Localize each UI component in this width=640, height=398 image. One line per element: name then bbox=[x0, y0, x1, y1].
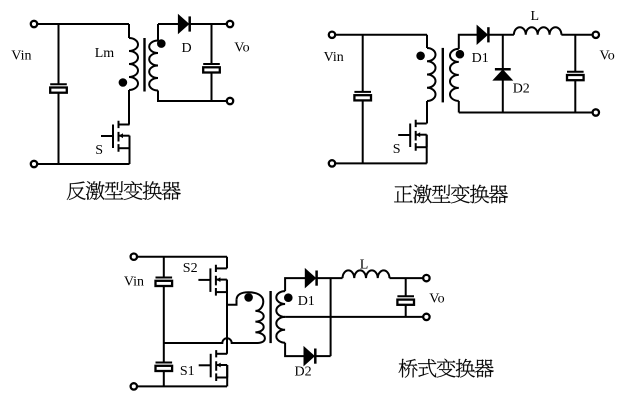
diode D1 (forward) bbox=[478, 27, 489, 43]
wire bottom rail (forward input) bbox=[335, 162, 427, 164]
wire secondary bottom lead to Vo- bbox=[158, 91, 227, 102]
capacitor output (forward) bbox=[567, 72, 584, 81]
svg-text:S2: S2 bbox=[183, 261, 198, 276]
diode D2 freewheeling (forward) bbox=[495, 69, 511, 79]
wire input cap branch top bbox=[58, 24, 60, 84]
node Vin+ terminal (flyback) bbox=[31, 21, 37, 27]
wire input cap branch bottom (forward) bbox=[362, 101, 364, 164]
node Vin- terminal (flyback) bbox=[31, 161, 37, 167]
node Vin- terminal (forward) bbox=[329, 160, 335, 166]
wire top rail Vin+ to transformer primary bbox=[37, 23, 129, 25]
svg-text:Vo: Vo bbox=[429, 291, 444, 306]
wire top rail Vin+ to primary bbox=[335, 34, 427, 36]
transistor S1 (bridge lower MOSFET) bbox=[199, 350, 228, 381]
label caption 桥式变换器 bbox=[399, 359, 494, 378]
wire input cap branch top (forward) bbox=[362, 35, 364, 92]
transistor S (flyback MOSFET) bbox=[101, 121, 130, 152]
diode D1 (bridge) bbox=[306, 270, 317, 286]
wire secondary center tap to Vo- bbox=[285, 316, 423, 318]
svg-text:Lm: Lm bbox=[95, 46, 115, 61]
wire secondary top lead to diode D bbox=[158, 24, 179, 41]
wire secondary top lead to D1 (bridge) bbox=[285, 278, 306, 291]
wire primary top lead bbox=[128, 24, 130, 38]
transformer T3 core bbox=[269, 291, 271, 343]
node secondary polarity dot (forward) bbox=[457, 51, 464, 58]
svg-text:Vin: Vin bbox=[324, 50, 344, 65]
wire bottom rail bbox=[37, 163, 129, 165]
capacitor input upper (bridge) bbox=[156, 278, 173, 287]
capacitor input lower (bridge) bbox=[156, 363, 173, 372]
wire input branch top (bridge) bbox=[163, 257, 165, 278]
svg-text:L: L bbox=[531, 9, 540, 24]
node secondary polarity dot bbox=[158, 40, 165, 47]
transformer T1 core bbox=[143, 38, 145, 92]
svg-text:D2: D2 bbox=[513, 82, 530, 97]
wire diode D cathode to Vo+ bbox=[191, 23, 227, 25]
wire D1 cathode to L node bbox=[317, 277, 342, 279]
transformer T1 primary winding Lm bbox=[129, 38, 138, 90]
svg-text:Vo: Vo bbox=[600, 49, 615, 64]
wire rectified node vertical D1 to D2 bbox=[330, 278, 332, 356]
wire output cap branch top (forward) bbox=[574, 35, 576, 72]
svg-text:S1: S1 bbox=[180, 364, 195, 379]
wire secondary bottom rail to Vo- bbox=[459, 101, 593, 113]
wire bottom rail (bridge) bbox=[137, 385, 227, 387]
label caption 反激型变换器 bbox=[67, 181, 181, 200]
svg-text:L: L bbox=[360, 257, 369, 272]
wire primary bottom lead to switch drain (forward) bbox=[426, 101, 428, 124]
svg-text:D: D bbox=[182, 41, 192, 56]
svg-text:Vo: Vo bbox=[234, 40, 249, 55]
wire S1 source to bottom rail bbox=[226, 365, 228, 386]
transformer T2 primary winding bbox=[427, 48, 436, 101]
wire secondary bottom lead to D2 (bridge) bbox=[285, 343, 304, 356]
wire output cap branch bottom (forward) bbox=[574, 80, 576, 112]
wire primary top lead (forward) bbox=[426, 35, 428, 48]
wire secondary top lead to D1 (forward) bbox=[459, 35, 478, 49]
svg-text:D1: D1 bbox=[298, 294, 315, 309]
transformer T3 primary winding bbox=[237, 292, 265, 343]
wire output cap branch bottom bbox=[211, 73, 213, 101]
diode D2 (bridge) bbox=[305, 348, 316, 364]
transformer T3 secondary winding lower half bbox=[276, 317, 285, 343]
svg-text:S: S bbox=[393, 142, 401, 157]
node Vo- terminal (bridge) bbox=[423, 314, 429, 320]
wire L to Vo+ (bridge) bbox=[390, 277, 424, 279]
node Vo- terminal (flyback) bbox=[227, 98, 233, 104]
wire D2 branch top bbox=[502, 35, 504, 70]
svg-text:Vin: Vin bbox=[124, 274, 144, 289]
wire primary bottom lead to switch drain bbox=[128, 90, 130, 125]
node Vin- terminal (bridge) bbox=[131, 383, 137, 389]
svg-text:D2: D2 bbox=[295, 364, 312, 379]
wire output cap branch bottom (bridge) bbox=[405, 305, 407, 317]
wire output cap branch top (bridge) bbox=[405, 278, 407, 296]
svg-text:Vin: Vin bbox=[11, 48, 31, 63]
wire output cap branch top bbox=[211, 24, 213, 64]
transformer T2 secondary winding bbox=[450, 49, 459, 101]
node secondary polarity dot (bridge) bbox=[285, 294, 292, 301]
label caption 正激型变换器 bbox=[394, 185, 508, 204]
transistor S (forward MOSFET) bbox=[398, 120, 427, 151]
wire middle rail cap midpoint to primary bottom with hop bbox=[164, 338, 238, 343]
capacitor output (flyback) bbox=[203, 64, 220, 73]
inductor L (bridge) bbox=[343, 270, 390, 278]
wire between caps (bridge) bbox=[163, 286, 165, 362]
wire switch source to bottom rail (forward) bbox=[426, 135, 428, 164]
wire top rail to S2 drain (bridge) bbox=[137, 257, 227, 269]
wire switch source to bottom rail bbox=[129, 136, 131, 164]
diode D bbox=[179, 16, 190, 32]
capacitor input (forward) bbox=[354, 92, 371, 101]
node Vin+ terminal (bridge) bbox=[131, 254, 137, 260]
transformer T2 core bbox=[442, 48, 444, 103]
node primary polarity dot bbox=[120, 79, 127, 86]
wire switch node S2 source to S1 drain bbox=[226, 280, 228, 354]
node Vo+ terminal (forward) bbox=[593, 32, 599, 38]
transformer T3 secondary winding upper half bbox=[276, 291, 285, 317]
svg-text:S: S bbox=[95, 143, 103, 158]
svg-text:D1: D1 bbox=[472, 51, 489, 66]
wire lower cap to bottom rail (bridge) bbox=[163, 371, 165, 386]
node Vo- terminal (forward) bbox=[593, 109, 599, 115]
wire primary top tap jog bbox=[227, 300, 237, 305]
node primary polarity dot (forward) bbox=[417, 53, 424, 60]
node Vo+ terminal (bridge) bbox=[423, 275, 429, 281]
node primary polarity dot (bridge) bbox=[245, 294, 252, 301]
capacitor output (bridge) bbox=[397, 296, 414, 305]
wire input cap branch bottom bbox=[58, 93, 60, 164]
wire L to Vo+ bbox=[561, 34, 592, 36]
transformer T1 secondary winding bbox=[149, 41, 158, 91]
node Vo+ terminal (flyback) bbox=[227, 21, 233, 27]
wire D2 branch bottom bbox=[502, 80, 504, 113]
transistor S2 (bridge upper MOSFET) bbox=[198, 265, 227, 296]
node Vin+ terminal (forward) bbox=[329, 32, 335, 38]
wire D1 cathode to L and D2 node bbox=[489, 34, 514, 36]
capacitor input (flyback) bbox=[50, 84, 67, 93]
wire D2 cathode to rectified node bbox=[316, 355, 331, 357]
inductor L (forward) bbox=[514, 27, 562, 35]
